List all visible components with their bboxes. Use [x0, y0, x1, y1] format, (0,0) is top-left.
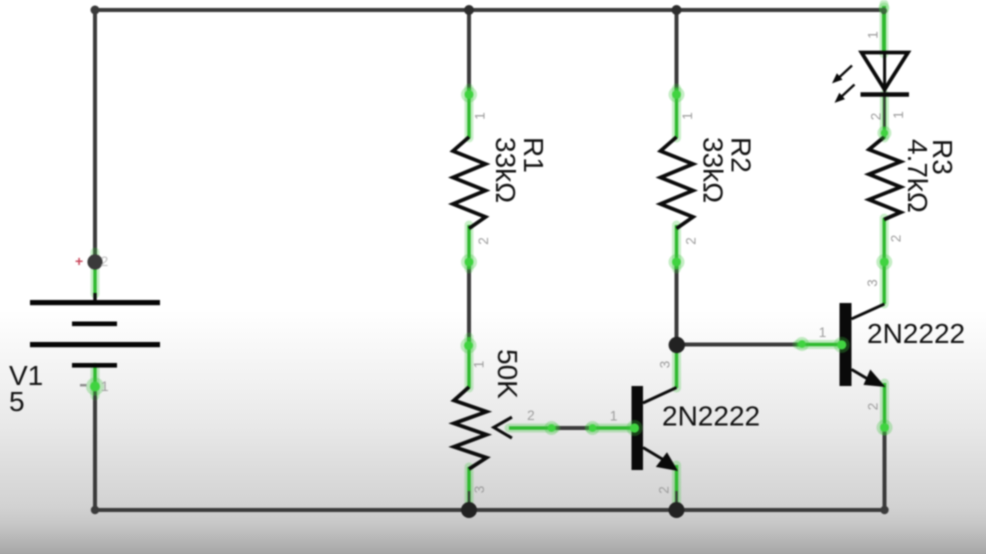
green dot R3 pin2 net [880, 258, 889, 267]
node junction pot bottom [461, 502, 477, 518]
potentiometer 50K zigzag [454, 387, 487, 469]
node bottom left corner [91, 506, 99, 514]
svg-text:1: 1 [101, 379, 109, 394]
green wire Q2 emitter pin [883, 383, 886, 431]
svg-text:2: 2 [657, 486, 672, 494]
svg-text:2: 2 [889, 235, 904, 243]
wire pot wiper to Q1 base [550, 426, 596, 430]
green wire pot wiper [509, 426, 556, 429]
green dot R2 pin1 [672, 90, 681, 99]
wire end cap top right corner [881, 8, 887, 14]
transistor Q2 emitter arrowhead [864, 370, 886, 388]
green wire pot pin1 [467, 337, 470, 388]
wire dark core battery minus [94, 391, 96, 400]
wire Q2 emitter down [883, 428, 887, 512]
green wire battery plus pin [93, 265, 96, 294]
svg-text:2: 2 [684, 237, 699, 245]
battery V1 plate short 2 [72, 363, 117, 368]
wire R1 top drop [467, 10, 471, 92]
wire bottom rail [93, 508, 886, 512]
svg-text:2N2222: 2N2222 [662, 400, 760, 431]
svg-text:1: 1 [473, 112, 488, 120]
battery V1 plate long 2 [30, 342, 160, 347]
green wire R3 to Q2 collector [883, 218, 886, 304]
green wire Q2 base pin [797, 343, 841, 346]
green wire R2 pin1 [675, 88, 678, 138]
LED D1 emission arrow 1 [833, 66, 855, 103]
svg-text:+: + [75, 253, 83, 269]
battery V1 plate long top [30, 300, 160, 305]
green wire Q1 collector pin [675, 349, 678, 388]
green wire R1 pin1 [467, 88, 470, 138]
svg-text:1: 1 [472, 361, 487, 369]
green dot LED cathode net [881, 129, 888, 136]
green wire R1 pin2 [467, 225, 470, 269]
wire dark core Q1 emitter lower [675, 491, 677, 505]
node bottom right corner [880, 506, 888, 514]
transistor Q1 emitter arrowhead [656, 452, 678, 471]
svg-text:R1: R1 [518, 137, 549, 173]
wire battery negative down [93, 389, 97, 512]
node junction R1 top [464, 5, 474, 15]
wire left vertical to battery [93, 8, 97, 257]
svg-text:3: 3 [658, 361, 673, 369]
svg-text:3: 3 [865, 279, 880, 287]
svg-text:1: 1 [891, 111, 906, 119]
svg-text:1: 1 [680, 112, 695, 120]
transistor Q2 collector line [852, 304, 885, 319]
svg-text:2: 2 [476, 237, 491, 245]
battery V1 plate short [72, 322, 117, 327]
wire R2 to node A [675, 266, 679, 340]
potentiometer wiper open arrowhead [494, 417, 512, 438]
svg-text:R2: R2 [726, 137, 757, 173]
green wire Q1 base pin [589, 426, 633, 429]
node battery plus terminal [87, 254, 102, 269]
green wire pot pin3 [467, 467, 470, 506]
green dot Q1 base net [589, 424, 597, 432]
green wire R2 pin2 [675, 225, 678, 269]
resistor R2 zigzag [661, 137, 694, 229]
battery stem top [93, 293, 96, 302]
svg-text:1: 1 [819, 325, 827, 340]
resistor R1 zigzag [453, 137, 486, 229]
transistor Q1 emitter line [643, 448, 663, 460]
green wire top right corner [882, 6, 886, 54]
svg-text:33kΩ: 33kΩ [490, 137, 521, 203]
svg-text:33kΩ: 33kΩ [698, 137, 729, 203]
green dot R1 pin1 [465, 90, 474, 99]
transistor Q1 base bar [632, 386, 644, 470]
wire node A to Q2 base [677, 343, 800, 347]
LED D1 emission arrow 2 [841, 85, 855, 98]
svg-text:4.7kΩ: 4.7kΩ [902, 139, 933, 213]
green dot battery minus pin [90, 382, 100, 392]
svg-text:50K: 50K [492, 349, 523, 399]
node junction R2 top [672, 5, 682, 15]
green dot pot wiper net [548, 424, 556, 432]
transistor Q1 collector line [643, 388, 677, 404]
green wire battery minus pin [93, 367, 96, 396]
green dot Q2 base pin [837, 340, 846, 349]
svg-text:1: 1 [865, 31, 880, 39]
svg-text:1: 1 [610, 409, 618, 424]
wire dark core below LED cathode [883, 96, 885, 127]
svg-text:2: 2 [869, 113, 884, 121]
green dot pot pin1 [464, 341, 473, 350]
node junction Q1 emitter bottom [669, 502, 685, 518]
resistor R3 zigzag [869, 137, 901, 220]
wire top rail [93, 8, 882, 12]
green dot Q1 base pin [630, 423, 639, 432]
svg-text:2: 2 [101, 253, 109, 269]
green dot Q2 base net [798, 340, 806, 348]
green pin dot glows [86, 3, 893, 437]
LED D1 cathode bar [861, 92, 910, 97]
svg-text:5: 5 [9, 386, 25, 417]
LED D1 anode wire through triangle [883, 53, 886, 93]
wire R1 to pot [467, 266, 471, 346]
green net glow underlay [95, 4, 885, 507]
wire R2 top drop [675, 10, 679, 92]
transistor Q2 base bar [840, 303, 852, 386]
green wire LED cathode to R3 [883, 94, 886, 138]
green dot Q2 emitter net [880, 423, 889, 432]
svg-text:2: 2 [527, 408, 535, 423]
green wire Q1 emitter pin [675, 465, 678, 507]
green dot R1 pin2 [465, 258, 474, 267]
LED D1 triangle [862, 53, 909, 90]
transistor Q2 emitter line [852, 369, 870, 379]
node top left corner [91, 6, 100, 15]
svg-text:2: 2 [866, 403, 881, 411]
green dot R2 pin2 [672, 258, 681, 267]
node A junction R2/Q1/Q2 [669, 337, 685, 353]
wire dark core pot pin3 lower [468, 491, 470, 505]
svg-text:3: 3 [472, 486, 487, 494]
svg-text:2N2222: 2N2222 [867, 318, 965, 349]
label battery minus sign [80, 384, 87, 386]
